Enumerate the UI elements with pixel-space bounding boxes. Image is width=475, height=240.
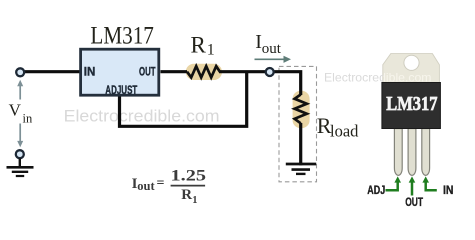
svg-text:OUT: OUT [139, 64, 156, 78]
svg-text:ADJUST: ADJUST [105, 83, 137, 97]
svg-text:out: out [137, 179, 155, 193]
svg-text:LM317: LM317 [386, 94, 437, 115]
svg-text:R: R [191, 32, 207, 57]
svg-text:in: in [23, 112, 33, 126]
svg-text:1: 1 [192, 195, 197, 206]
svg-text:out: out [262, 41, 282, 57]
svg-text:ADJ: ADJ [367, 185, 385, 197]
svg-text:1.25: 1.25 [171, 168, 207, 185]
svg-text:R: R [181, 187, 192, 203]
svg-text:load: load [330, 122, 359, 141]
svg-text:IN: IN [84, 64, 96, 78]
svg-text:LM317: LM317 [90, 23, 154, 50]
svg-text:IN: IN [443, 185, 454, 197]
svg-text:OUT: OUT [405, 197, 423, 209]
svg-text:V: V [9, 100, 22, 119]
svg-text:=: = [157, 176, 165, 191]
svg-text:1: 1 [207, 42, 215, 59]
svg-text:Electrocredible.com: Electrocredible.com [64, 107, 220, 126]
